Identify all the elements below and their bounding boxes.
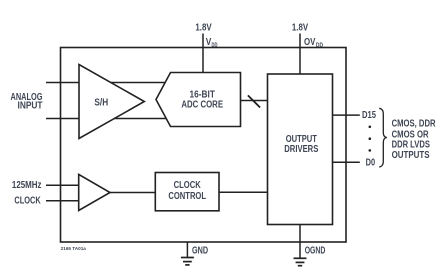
ground symbol GND — [181, 258, 194, 265]
wire clock control to output drivers — [219, 191, 268, 193]
wire analog input - — [46, 118, 167, 120]
svg-text:1.8V: 1.8V — [195, 22, 212, 33]
svg-text:1.8V: 1.8V — [292, 22, 309, 33]
wire clock buffer to clock control — [110, 192, 155, 194]
svg-text:INPUT: INPUT — [18, 101, 43, 112]
svg-text:OV: OV — [304, 37, 316, 48]
ADC core U1 — [156, 73, 241, 127]
output drivers block — [268, 74, 333, 225]
clock control block — [155, 173, 219, 211]
wire D0 output stub — [333, 161, 360, 163]
svg-text:125MHz: 125MHz — [12, 180, 42, 191]
ellipsis dots D15..D0 — [369, 126, 372, 129]
wire analog input + — [46, 82, 167, 84]
svg-text:CLOCK: CLOCK — [174, 180, 201, 191]
svg-text:ADC CORE: ADC CORE — [181, 99, 223, 110]
wire ADC core bus to output drivers — [241, 100, 268, 102]
bus width slash — [248, 95, 260, 107]
wire OVDD stub — [299, 34, 301, 75]
brace for output bus — [379, 108, 387, 167]
svg-text:D15: D15 — [362, 110, 376, 121]
ground symbol OGND — [294, 258, 307, 265]
amplifier S/H — [79, 65, 144, 139]
wire D15 output stub — [333, 114, 360, 116]
svg-text:DD: DD — [316, 42, 323, 49]
wire clock input 125MHz — [46, 184, 80, 186]
svg-text:DRIVERS: DRIVERS — [284, 144, 318, 155]
wire GND stub — [186, 242, 188, 258]
svg-text:CMOS, DDR: CMOS, DDR — [392, 118, 436, 129]
wire clock input CLOCK — [46, 200, 80, 202]
wire VDD stub — [202, 34, 204, 73]
svg-text:D0: D0 — [366, 157, 376, 168]
svg-text:OGND: OGND — [305, 245, 326, 256]
svg-text:CLOCK: CLOCK — [14, 195, 40, 206]
svg-text:S/H: S/H — [94, 97, 108, 108]
svg-text:DD: DD — [212, 42, 218, 49]
svg-text:GND: GND — [192, 245, 208, 256]
wire OGND stub — [299, 225, 301, 259]
svg-text:CONTROL: CONTROL — [168, 191, 206, 202]
svg-text:2165 TA01a: 2165 TA01a — [61, 246, 87, 251]
clock buffer amplifier — [79, 174, 110, 210]
chip boundary box — [61, 48, 347, 243]
svg-text:DDR LVDS: DDR LVDS — [392, 140, 431, 151]
svg-text:OUTPUTS: OUTPUTS — [392, 150, 430, 161]
